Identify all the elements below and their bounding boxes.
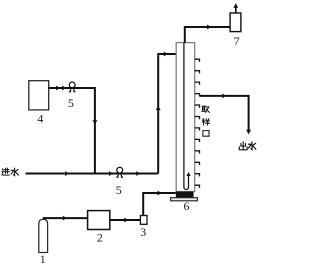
pump 5b <box>116 167 123 177</box>
svg-text:4: 4 <box>37 112 43 126</box>
column 6 body <box>176 43 195 192</box>
svg-text:5: 5 <box>68 96 74 110</box>
sampling stub 7 <box>195 128 200 131</box>
pipe riser up to column <box>158 54 176 174</box>
vent pipe above box 7 <box>235 5 237 13</box>
sampling stub 5 <box>195 105 200 108</box>
arrow vent up <box>233 3 238 8</box>
pipe inlet horizontal <box>26 173 159 175</box>
svg-text:6: 6 <box>184 199 190 213</box>
arrow down on vertical pipe <box>92 120 97 124</box>
sampling stub 12 <box>195 185 200 188</box>
arrow inlet b <box>109 171 113 176</box>
arrow on pipe4 a <box>56 86 60 91</box>
valve box 3 <box>140 216 147 225</box>
sampling stub 6 <box>195 117 200 120</box>
arrow inlet a <box>65 171 69 176</box>
arrow cylinder to box2 <box>63 216 67 221</box>
sampling stub 3 <box>195 82 200 85</box>
arrow into column base <box>158 191 162 196</box>
label outlet 水 <box>248 142 256 150</box>
pipe outlet <box>199 96 248 130</box>
arrow inlet c <box>136 171 140 176</box>
arrow up inside draft tube <box>186 172 190 176</box>
gas box 7 <box>230 13 241 32</box>
label outlet 出 <box>239 142 247 150</box>
sampling stub 9 <box>195 151 200 154</box>
arrow on pipe4 b <box>62 86 66 91</box>
pipe tank4 to junction <box>49 87 95 89</box>
tank 4 <box>29 81 49 110</box>
box 2 <box>88 211 110 230</box>
sampling stub 2 <box>195 71 200 74</box>
sampling stub 11 <box>195 174 200 177</box>
arrow to box 7 <box>207 25 211 30</box>
svg-text:2: 2 <box>97 231 103 245</box>
label inlet 进水 <box>2 168 10 175</box>
arrow riser up <box>156 106 161 110</box>
column inner draft tube <box>184 43 189 190</box>
label inlet 水 <box>11 168 18 175</box>
arrow into column left <box>164 52 168 57</box>
pipe junction down <box>94 87 96 174</box>
pump 5a <box>69 82 76 92</box>
svg-text:1: 1 <box>40 252 46 266</box>
arrow outlet right <box>222 93 226 98</box>
sampling stub 8 <box>195 139 200 142</box>
sampling stub 10 <box>195 162 200 165</box>
pipe cylinder to box 2 <box>43 217 88 219</box>
pipe valve3 to column base <box>143 193 176 216</box>
arrow outlet down <box>246 130 251 135</box>
label sampling port 取 <box>202 106 210 112</box>
column base plate <box>171 198 198 201</box>
sampling stub 4 outlet <box>195 94 200 96</box>
arrow box2 to valve3 <box>124 218 128 223</box>
svg-text:5: 5 <box>116 183 122 197</box>
label sampling port 口 <box>203 131 209 137</box>
svg-text:7: 7 <box>234 34 240 48</box>
pipe column top to box 7 <box>185 27 230 43</box>
gas cylinder 1 <box>39 219 48 252</box>
svg-text:3: 3 <box>140 225 146 239</box>
label sampling port 样 <box>202 118 210 125</box>
column support block <box>176 192 194 198</box>
pipe box2 to valve 3 <box>110 219 141 221</box>
sampling stub 1 <box>195 59 200 62</box>
